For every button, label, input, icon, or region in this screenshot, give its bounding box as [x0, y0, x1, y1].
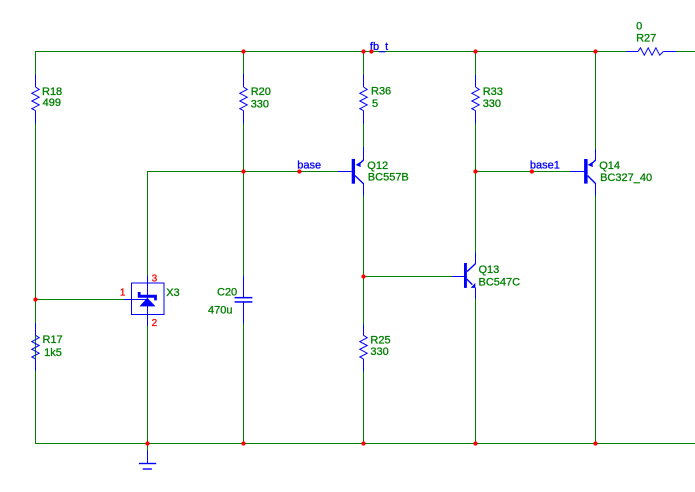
svg-text:Q13: Q13 — [479, 264, 500, 276]
node base1 anchor — [530, 169, 534, 173]
transistor Q14 — [570, 149, 652, 196]
node top rail / Q14 — [593, 49, 597, 53]
svg-text:R36: R36 — [371, 86, 391, 98]
svg-text:C20: C20 — [217, 287, 237, 299]
node top rail / R33 — [473, 49, 477, 53]
svg-text:BC327_40: BC327_40 — [600, 172, 652, 184]
node bottom rail / C20 — [241, 441, 245, 445]
shunt regulator X3 (TL431-style zener in box) — [120, 274, 180, 329]
svg-text:Q12: Q12 — [367, 160, 388, 172]
resistor R18 — [32, 75, 62, 124]
node base wire / R20 vertical — [241, 169, 245, 173]
resistor R17 — [32, 323, 63, 371]
svg-text:R18: R18 — [42, 86, 62, 98]
node top rail / R36 — [361, 49, 365, 53]
resistor R27 — [627, 21, 676, 56]
transistor Q12 — [338, 147, 409, 195]
svg-text:0: 0 — [636, 21, 642, 33]
svg-text:3: 3 — [152, 274, 158, 285]
ground — [139, 444, 156, 470]
svg-text:1: 1 — [120, 287, 126, 298]
wire R36/Q12/R25 vertical — [363, 52, 365, 444]
capacitor C20 — [208, 275, 252, 323]
svg-text:R33: R33 — [483, 86, 503, 98]
svg-text:470u: 470u — [208, 305, 232, 317]
node bottom rail / R25 — [361, 441, 365, 445]
node base1 wire / R33 vertical — [473, 169, 477, 173]
svg-text:base1: base1 — [530, 160, 560, 172]
node top rail / R20 — [241, 49, 245, 53]
wire left rail — [35, 52, 37, 444]
svg-text:499: 499 — [43, 97, 61, 109]
resistor R33 — [472, 75, 503, 123]
wire bottom rail — [35, 443, 695, 445]
svg-text:330: 330 — [251, 99, 269, 111]
wire top rail — [35, 51, 695, 53]
wire R33/Q13 vertical — [475, 52, 477, 444]
svg-text:BC557B: BC557B — [368, 172, 409, 184]
svg-text:base: base — [297, 159, 321, 171]
wire X3 branch vertical — [147, 172, 149, 444]
svg-text:R27: R27 — [636, 33, 656, 45]
wire base (horizontal to Q12) — [147, 171, 338, 173]
node left rail / X3 pin1 — [33, 297, 37, 301]
resistor R25 — [360, 325, 391, 372]
svg-text:BC547C: BC547C — [479, 276, 521, 288]
wire R20/C20 vertical — [243, 52, 245, 444]
wire X3 pin1 horizontal — [35, 299, 124, 301]
node bottom rail / Q14 — [593, 441, 597, 445]
svg-text:1k5: 1k5 — [44, 347, 62, 359]
transistor Q13 — [452, 252, 520, 299]
node base anchor — [297, 169, 301, 173]
svg-text:Q14: Q14 — [599, 160, 620, 172]
svg-text:X3: X3 — [166, 287, 179, 299]
wire Q13 base horizontal — [364, 276, 452, 278]
node bottom rail / Q13 — [473, 441, 477, 445]
svg-text:R25: R25 — [370, 335, 390, 347]
node Q13 base / R25 vertical — [361, 274, 365, 278]
svg-text:330: 330 — [370, 346, 388, 358]
svg-text:330: 330 — [483, 98, 501, 110]
svg-text:R17: R17 — [43, 334, 63, 346]
wire base1 (horizontal to Q14) — [476, 171, 570, 173]
resistor R20 — [240, 74, 271, 124]
wire Q14 vertical — [595, 52, 597, 444]
svg-text:5: 5 — [372, 98, 378, 110]
resistor R36 — [360, 74, 391, 124]
svg-text:R20: R20 — [251, 86, 271, 98]
svg-text:2: 2 — [152, 318, 158, 329]
node bottom rail / ground — [145, 441, 149, 445]
node fb_t anchor — [369, 49, 373, 53]
